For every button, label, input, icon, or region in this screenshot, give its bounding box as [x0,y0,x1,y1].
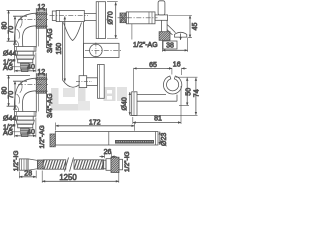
hose fitting right [103,157,123,172]
nipple 3/4"-AG B (hatched) [35,77,47,93]
wall flange E [132,92,137,116]
svg-text:Ø40: Ø40 [122,97,129,110]
dim 80 (B) [8,75,10,106]
dim 16 [167,68,187,75]
svg-text:AG: AG [3,65,13,72]
watermark letter U [51,88,90,111]
svg-text:40: 40 [27,64,35,71]
dim 50 [186,78,188,106]
horizontal body C [56,10,84,21]
body bottom curve C [63,80,84,87]
dim 40 (B) [15,135,36,137]
bottom union block C [76,76,98,88]
svg-text:1250: 1250 [59,173,77,182]
dim 81 [133,122,181,124]
top union pipe C [84,13,96,20]
wall nipple D (hatched) [159,32,170,41]
svg-text:3/4"-AG: 3/4"-AG [47,28,54,53]
escutcheon plate B [15,112,36,137]
hose nipple 1/2"-AG (hatched, left) [120,13,126,23]
svg-text:45: 45 [192,23,199,31]
dim 45 [189,16,191,38]
dim 1250 [42,180,119,182]
svg-text:1/2"-AG: 1/2"-AG [133,42,158,49]
holder hook E [163,76,181,94]
svg-text:172: 172 [89,119,101,126]
saddle curve C [64,23,82,41]
dim 70 (A) [14,16,16,44]
dim Ø40 [129,92,131,115]
spout B curved tube [14,78,36,111]
escutcheon plate A [15,47,36,72]
body end cap C [52,11,56,21]
svg-text:38: 38 [166,43,174,50]
wall rose 2 [98,65,105,99]
centre line A [18,19,48,21]
dim Ø70 [115,2,117,38]
svg-text:12: 12 [37,4,45,11]
centre line B [18,84,48,86]
svg-text:81: 81 [154,116,162,123]
wall pipe D [161,20,167,31]
wall rose 1 (Ø70) [96,2,105,39]
dim 65 [134,67,172,69]
svg-text:Ø70: Ø70 [107,11,114,24]
lever handle D [155,1,168,21]
svg-text:AG: AG [3,130,13,137]
handle body F [55,132,158,146]
svg-text:12: 12 [37,69,45,76]
dim 172 [56,125,135,127]
svg-text:70: 70 [8,91,15,99]
dim 150 [64,16,66,81]
dim 12 (A) [36,8,46,12]
svg-text:26: 26 [104,149,112,156]
hose corrugated tube [43,158,103,172]
centre line D [118,17,158,19]
svg-text:65: 65 [149,62,157,69]
svg-text:1/2"-IG: 1/2"-IG [13,151,20,172]
dim 38 (boxed) [162,38,187,52]
holder arm E [137,95,177,102]
svg-text:74: 74 [194,89,200,97]
dim 70 (B) [14,81,16,109]
svg-text:3/4"-AG: 3/4"-AG [47,93,54,118]
spout curve D [167,25,187,38]
watermark letter B [104,87,128,101]
svg-text:Ø23: Ø23 [161,133,168,146]
inlet nipple (hatched) F [50,134,55,147]
vertical body C [63,22,84,80]
svg-text:1/2"-IG: 1/2"-IG [124,151,131,172]
dim 26 [100,153,117,159]
spout B vertical supply body [36,91,46,113]
svg-text:70: 70 [8,26,15,34]
nipple 3/4"-AG A (hatched) [35,12,47,28]
svg-text:40: 40 [27,129,35,136]
hose nipple left (hatched) [38,160,44,169]
dim 80 (A) [8,10,10,41]
flow arrow D [180,34,182,41]
centre line top C [50,15,89,17]
dim 74 [195,78,197,115]
spout A curved tube [14,13,36,46]
svg-text:50: 50 [186,88,193,96]
spout box C (front) [84,43,123,59]
dim 40 (A) [15,70,36,72]
cartridge body D [126,12,155,24]
dim 28 [19,176,36,178]
hose nut left [19,159,37,170]
svg-text:16: 16 [173,61,181,68]
svg-text:150: 150 [56,43,63,55]
spout A vertical supply body [36,26,46,48]
svg-text:1/2"-AG: 1/2"-AG [39,125,46,148]
svg-text:28: 28 [24,171,32,178]
spray strip F [115,140,154,144]
dim Ø23 [159,132,161,146]
dim 12 (B) [36,73,46,77]
